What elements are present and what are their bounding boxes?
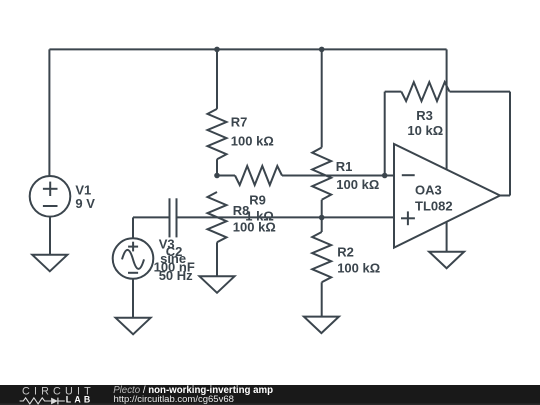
label R8 value <box>233 203 276 235</box>
wire V1 to ground <box>49 217 51 255</box>
wire R3 left lead down to inverting node <box>384 92 386 176</box>
label R1 value <box>336 159 380 192</box>
wire top rail <box>49 48 446 50</box>
wire op-amp V- to ground <box>446 222 448 252</box>
capacitor C2 <box>170 198 177 237</box>
op-amp OA3 <box>394 144 500 248</box>
node R7/R8/R9 junction <box>214 173 220 179</box>
wire R1 bottom lead <box>321 200 323 218</box>
ground below R8 <box>200 276 235 293</box>
svg-text:100 kΩ: 100 kΩ <box>337 261 380 276</box>
svg-text:R1: R1 <box>336 159 353 174</box>
resistor R2 <box>312 232 331 282</box>
wire R8 bottom lead <box>216 242 218 276</box>
label R7 value <box>231 114 274 148</box>
node R3-lead/inverting-input junction <box>382 173 388 179</box>
voltage source V1 <box>30 176 71 217</box>
ground below op-amp <box>429 252 464 269</box>
wire R9 left lead <box>217 175 235 177</box>
wire V1 top lead <box>48 49 50 176</box>
label R3 value <box>407 108 443 138</box>
label OA3 type <box>415 182 453 213</box>
node top-rail/R1 junction <box>319 47 325 53</box>
svg-text:50 Hz: 50 Hz <box>159 268 193 283</box>
ground below V1 <box>32 255 67 271</box>
svg-text:9 V: 9 V <box>75 196 95 211</box>
svg-text:OA3: OA3 <box>415 182 442 197</box>
svg-text:V3: V3 <box>159 237 175 252</box>
svg-text:TL082: TL082 <box>415 198 453 213</box>
svg-text:R9: R9 <box>249 193 266 208</box>
CircuitLab logo diode glyph <box>51 398 65 405</box>
wire C2 left lead <box>133 216 170 218</box>
resistor R9 <box>235 166 282 185</box>
node R1/R2/non-inverting wire junction <box>319 215 325 221</box>
CircuitLab logo resistor glyph <box>20 398 51 404</box>
wire op-amp V+ supply <box>446 49 448 169</box>
svg-text:R3: R3 <box>416 108 433 123</box>
svg-text:R7: R7 <box>231 114 248 129</box>
wire R2 top lead <box>321 218 323 233</box>
svg-text:1 kΩ: 1 kΩ <box>245 208 273 223</box>
label C2 value <box>154 244 195 275</box>
svg-text:10 kΩ: 10 kΩ <box>407 123 443 138</box>
ground below V3 <box>116 318 151 335</box>
svg-text:100 kΩ: 100 kΩ <box>231 133 274 148</box>
label R2 value <box>337 245 380 276</box>
label R9 value <box>245 193 273 224</box>
resistor R8 <box>208 192 227 242</box>
ground below R2 <box>304 317 339 334</box>
label V1 value <box>75 182 95 211</box>
wire R1 top lead <box>321 49 323 147</box>
wire R9 to op-amp inverting input <box>282 175 394 177</box>
resistor R1 <box>312 148 331 200</box>
wire V3 top lead <box>132 217 134 238</box>
voltage source V3 (sine) <box>113 238 154 279</box>
wire R7 bottom lead <box>216 159 218 175</box>
footer bar <box>0 385 540 405</box>
svg-text:sine: sine <box>160 251 186 266</box>
wire V3 to ground <box>132 279 134 318</box>
label V3 value <box>159 237 193 283</box>
svg-text:LAB: LAB <box>66 395 94 405</box>
wire feedback down to output <box>509 92 511 196</box>
wire R3 left lead <box>385 91 402 93</box>
wire R3 right lead <box>450 91 511 93</box>
wire non-inverting input (C2 to op-amp) <box>177 216 395 218</box>
wire R2 bottom lead <box>321 282 323 316</box>
node top-rail/R7 junction <box>214 47 220 53</box>
svg-text:http://circuitlab.com/cg65v68: http://circuitlab.com/cg65v68 <box>114 394 234 405</box>
svg-text:100 kΩ: 100 kΩ <box>336 177 379 192</box>
svg-text:R2: R2 <box>337 245 354 260</box>
resistor R7 <box>208 109 227 159</box>
resistor R3 <box>401 82 449 101</box>
wire R7 top lead <box>216 49 218 109</box>
wire op-amp output <box>500 195 510 197</box>
